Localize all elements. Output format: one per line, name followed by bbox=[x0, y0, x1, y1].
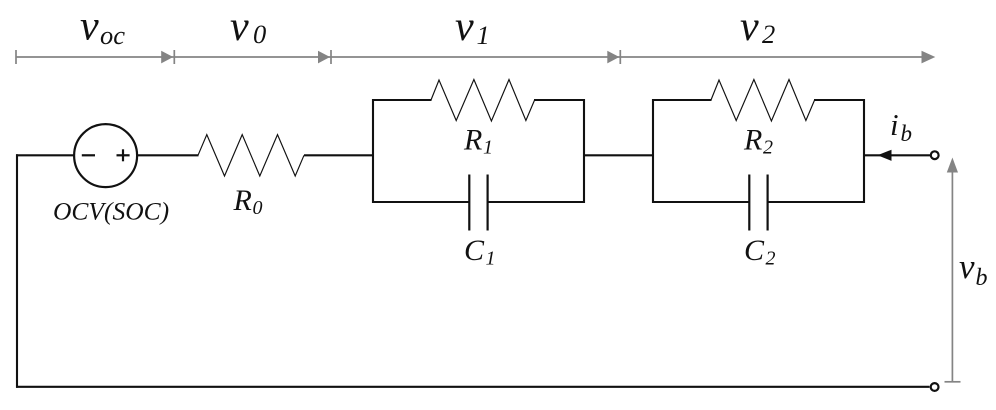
label v_0 bbox=[230, 4, 266, 50]
arrowhead 2 bbox=[318, 51, 330, 64]
tick 2 bbox=[330, 50, 332, 64]
svg-text:oc: oc bbox=[100, 20, 125, 50]
svg-text:v: v bbox=[959, 247, 975, 286]
resistor R0 bbox=[198, 135, 304, 176]
capacitor C1 bbox=[469, 175, 487, 231]
measure line v_b bbox=[945, 158, 961, 382]
current arrow i_b bbox=[878, 150, 892, 161]
label C2 bbox=[744, 234, 776, 270]
svg-text:1: 1 bbox=[477, 20, 490, 50]
tick 1 bbox=[173, 50, 175, 64]
svg-text:2: 2 bbox=[766, 248, 776, 270]
svg-text:b: b bbox=[901, 121, 913, 146]
label v_1 bbox=[455, 4, 490, 50]
tick start bbox=[15, 50, 17, 64]
RC box 2 frame bbox=[652, 99, 865, 203]
svg-text:0: 0 bbox=[253, 19, 266, 49]
wire R0 to box1 bbox=[304, 154, 374, 156]
wire box2 to terminal bbox=[864, 154, 931, 156]
svg-text:C: C bbox=[464, 234, 485, 267]
measure line top bbox=[16, 56, 924, 58]
resistor R1 bbox=[431, 80, 535, 122]
svg-text:OCV(SOC): OCV(SOC) bbox=[53, 197, 169, 226]
svg-text:v: v bbox=[740, 4, 759, 50]
svg-text:v: v bbox=[230, 4, 249, 50]
svg-text:b: b bbox=[976, 265, 988, 291]
label R1 bbox=[463, 124, 493, 159]
label R2 bbox=[743, 124, 773, 159]
arrowhead end bbox=[922, 51, 936, 64]
wire box1 to box2 bbox=[584, 154, 654, 156]
capacitor C2 bbox=[749, 175, 767, 231]
svg-text:1: 1 bbox=[483, 137, 493, 159]
resistor R2 bbox=[711, 80, 815, 122]
svg-text:0: 0 bbox=[253, 197, 263, 219]
wire left vertical bbox=[16, 154, 18, 387]
svg-text:R: R bbox=[743, 124, 762, 157]
label v_2 bbox=[740, 4, 775, 50]
arrowhead 3 bbox=[607, 51, 619, 64]
svg-text:v: v bbox=[80, 4, 99, 50]
terminal top bbox=[931, 151, 939, 159]
label i_b bbox=[890, 107, 912, 146]
wire bottom bbox=[16, 386, 930, 388]
svg-text:i: i bbox=[890, 107, 899, 142]
svg-text:C: C bbox=[744, 234, 765, 267]
label C1 bbox=[464, 234, 496, 270]
label OCV(SOC) bbox=[53, 197, 169, 226]
arrowhead 1 bbox=[161, 51, 173, 64]
wire left top bbox=[16, 154, 74, 156]
svg-text:v: v bbox=[455, 4, 474, 50]
voltage source OCV bbox=[74, 124, 137, 187]
svg-text:R: R bbox=[233, 184, 252, 217]
label R0 bbox=[233, 184, 263, 219]
svg-text:2: 2 bbox=[762, 19, 775, 49]
terminal bottom bbox=[931, 383, 939, 391]
wire source to R0 bbox=[137, 154, 198, 156]
svg-text:2: 2 bbox=[763, 137, 773, 159]
tick 3 bbox=[619, 50, 621, 64]
svg-text:1: 1 bbox=[486, 248, 496, 270]
label v_oc bbox=[80, 4, 125, 51]
label v_b bbox=[959, 247, 988, 291]
svg-text:R: R bbox=[463, 124, 482, 157]
RC box 1 frame bbox=[372, 99, 585, 203]
